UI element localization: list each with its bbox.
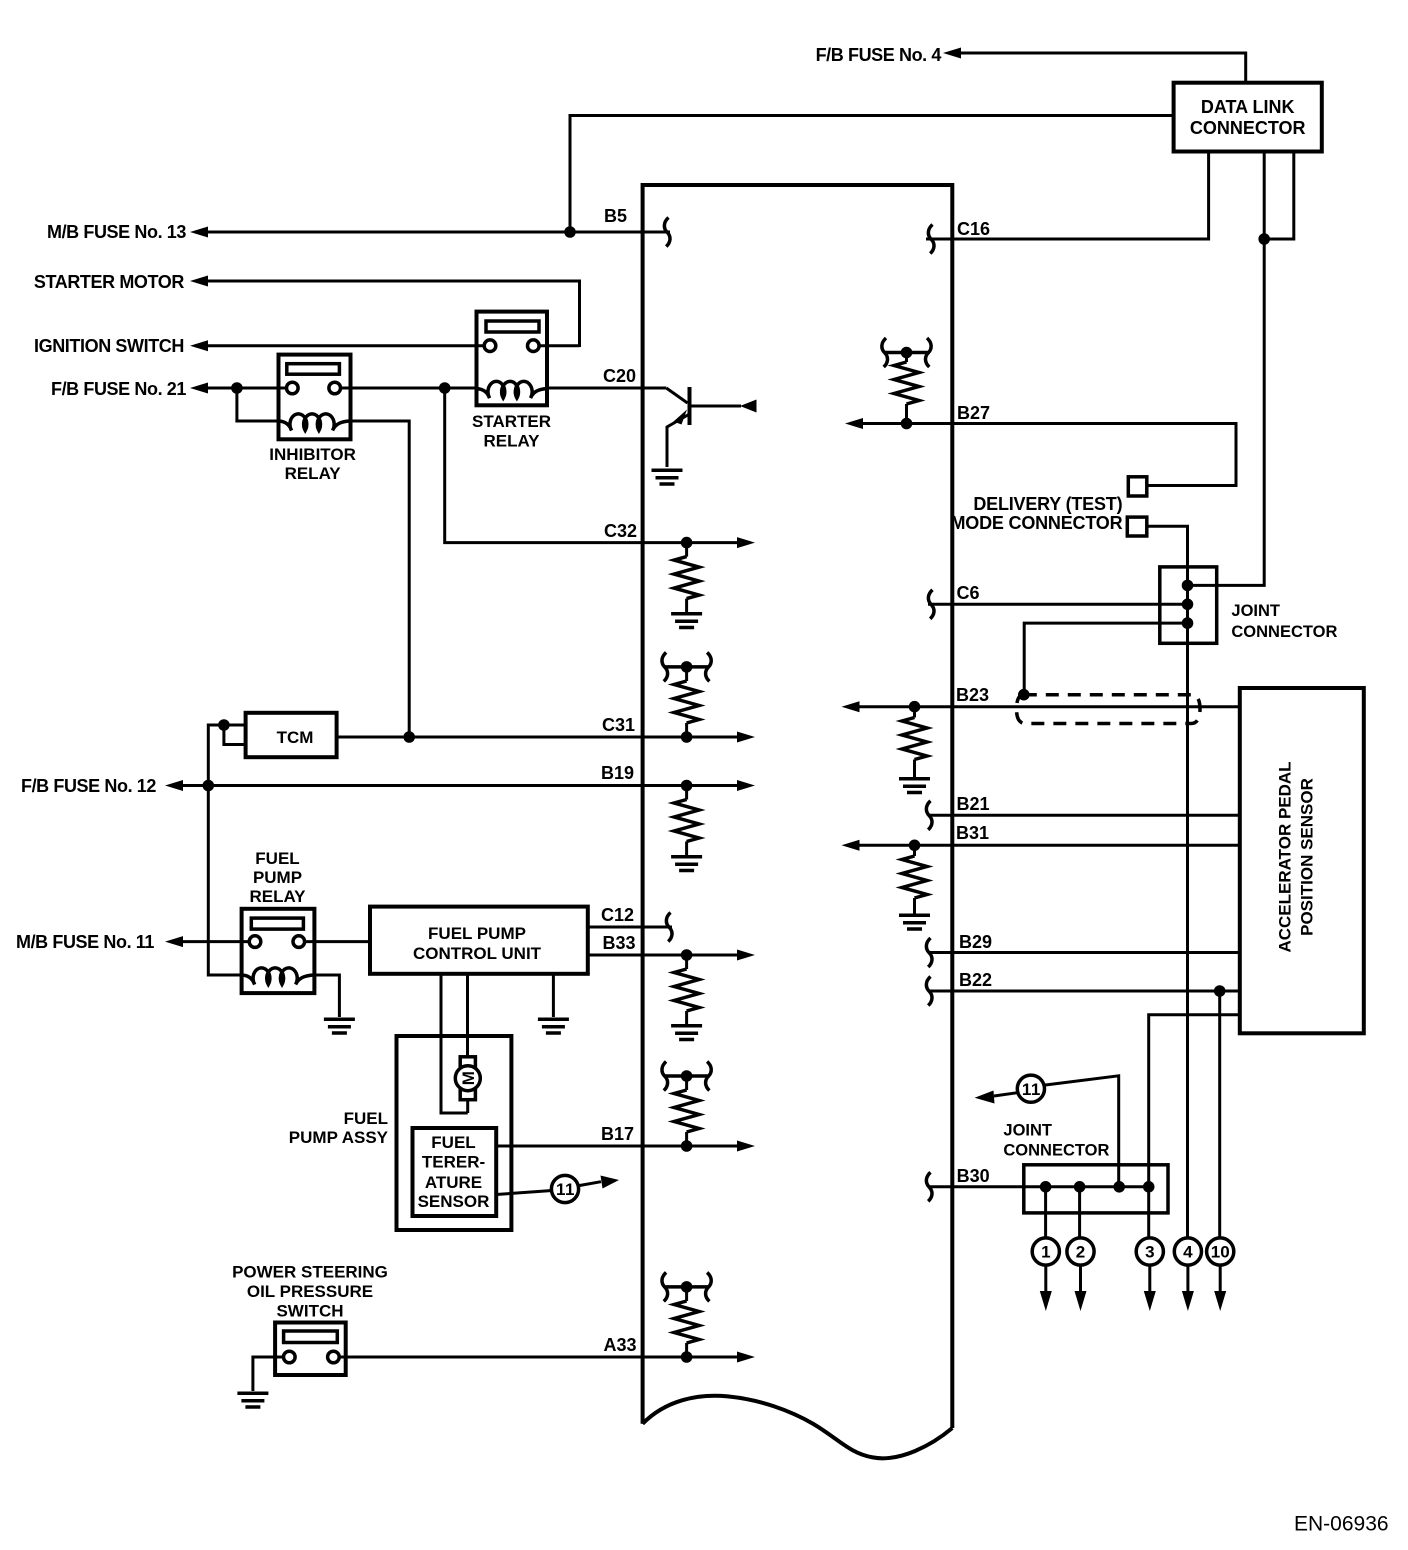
svg-text:B30: B30 xyxy=(957,1166,990,1186)
svg-text:ATURE: ATURE xyxy=(425,1173,482,1192)
svg-text:OIL PRESSURE: OIL PRESSURE xyxy=(247,1282,373,1301)
svg-text:M/B FUSE No. 11: M/B FUSE No. 11 xyxy=(16,932,154,952)
svg-text:PUMP ASSY: PUMP ASSY xyxy=(289,1128,389,1147)
svg-text:C6: C6 xyxy=(957,583,980,603)
svg-text:CONTROL UNIT: CONTROL UNIT xyxy=(413,944,542,963)
svg-text:C32: C32 xyxy=(604,521,637,541)
svg-text:SWITCH: SWITCH xyxy=(276,1302,343,1321)
svg-text:CONNECTOR: CONNECTOR xyxy=(1190,118,1306,138)
svg-text:RELAY: RELAY xyxy=(285,464,342,483)
svg-text:B19: B19 xyxy=(601,763,634,783)
svg-text:M/B FUSE No. 13: M/B FUSE No. 13 xyxy=(47,222,186,242)
svg-text:M: M xyxy=(459,1071,478,1085)
svg-text:10: 10 xyxy=(1211,1243,1230,1262)
svg-text:DELIVERY (TEST): DELIVERY (TEST) xyxy=(973,494,1122,514)
svg-text:ACCELERATOR PEDAL: ACCELERATOR PEDAL xyxy=(1276,761,1295,952)
svg-text:TERER-: TERER- xyxy=(422,1153,485,1172)
svg-text:B23: B23 xyxy=(956,685,989,705)
svg-text:FUEL: FUEL xyxy=(344,1109,388,1128)
svg-text:STARTER: STARTER xyxy=(472,412,551,431)
svg-text:MODE CONNECTOR: MODE CONNECTOR xyxy=(951,513,1123,533)
svg-text:B21: B21 xyxy=(957,794,990,814)
svg-text:STARTER MOTOR: STARTER MOTOR xyxy=(34,272,185,292)
svg-text:B29: B29 xyxy=(959,932,992,952)
svg-text:EN-06936: EN-06936 xyxy=(1294,1513,1389,1536)
svg-text:F/B FUSE No. 21: F/B FUSE No. 21 xyxy=(51,379,186,399)
svg-text:C16: C16 xyxy=(957,219,990,239)
svg-text:POWER STEERING: POWER STEERING xyxy=(232,1262,388,1281)
svg-text:F/B FUSE No. 12: F/B FUSE No. 12 xyxy=(21,776,156,796)
svg-text:B22: B22 xyxy=(959,970,992,990)
svg-text:4: 4 xyxy=(1183,1243,1193,1262)
svg-text:SENSOR: SENSOR xyxy=(418,1192,490,1211)
svg-text:JOINT: JOINT xyxy=(1231,602,1280,620)
svg-text:B27: B27 xyxy=(957,403,990,423)
svg-text:C31: C31 xyxy=(602,715,635,735)
svg-text:B33: B33 xyxy=(602,933,635,953)
svg-text:RELAY: RELAY xyxy=(249,887,306,906)
svg-text:POSITION SENSOR: POSITION SENSOR xyxy=(1298,778,1317,936)
svg-text:B5: B5 xyxy=(604,206,627,226)
svg-text:FUEL PUMP: FUEL PUMP xyxy=(428,924,526,943)
svg-text:PUMP: PUMP xyxy=(253,868,302,887)
svg-text:C12: C12 xyxy=(601,905,634,925)
svg-text:B17: B17 xyxy=(601,1124,634,1144)
svg-text:11: 11 xyxy=(556,1180,575,1199)
svg-text:C20: C20 xyxy=(603,366,636,386)
svg-text:FUEL: FUEL xyxy=(431,1133,475,1152)
svg-text:1: 1 xyxy=(1041,1243,1050,1262)
svg-text:RELAY: RELAY xyxy=(483,432,540,451)
svg-text:CONNECTOR: CONNECTOR xyxy=(1231,623,1337,641)
svg-text:IGNITION SWITCH: IGNITION SWITCH xyxy=(34,336,184,356)
svg-text:JOINT: JOINT xyxy=(1003,1122,1052,1140)
svg-text:FUEL: FUEL xyxy=(255,849,299,868)
svg-text:TCM: TCM xyxy=(277,728,314,747)
svg-text:DATA LINK: DATA LINK xyxy=(1201,97,1295,117)
svg-text:B31: B31 xyxy=(956,823,989,843)
svg-text:A33: A33 xyxy=(603,1335,636,1355)
svg-text:3: 3 xyxy=(1145,1243,1154,1262)
svg-text:F/B FUSE No. 4: F/B FUSE No. 4 xyxy=(816,45,942,65)
svg-text:INHIBITOR: INHIBITOR xyxy=(269,445,356,464)
svg-text:2: 2 xyxy=(1076,1243,1085,1262)
svg-text:CONNECTOR: CONNECTOR xyxy=(1003,1141,1109,1159)
svg-text:11: 11 xyxy=(1022,1080,1041,1099)
